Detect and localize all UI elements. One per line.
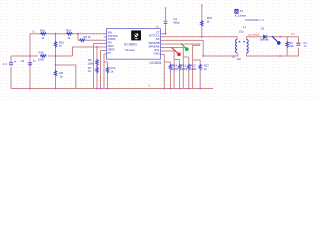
wire VREF vertical — [101, 51, 104, 89]
wire hook to R11 — [174, 60, 180, 89]
resistor R17 vertical — [199, 64, 201, 71]
svg-text:R18: R18 — [207, 16, 213, 20]
svg-text:Transient: Transient — [125, 49, 136, 52]
svg-text:NC: NC — [156, 37, 160, 41]
svg-text:22k: 22k — [289, 44, 294, 48]
svg-text:R16: R16 — [39, 50, 45, 54]
svg-text:R7: R7 — [88, 66, 92, 70]
svg-text:V2: V2 — [21, 59, 25, 63]
svg-text:10u: 10u — [236, 57, 241, 61]
resistor R6 vertical — [54, 70, 56, 77]
svg-text:R14: R14 — [66, 29, 72, 33]
open wire end markers — [165, 4, 203, 9]
wire GND vertical — [162, 55, 165, 89]
svg-text:RT: RT — [108, 51, 112, 55]
svg-text:out_freq1: out_freq1 — [248, 32, 260, 36]
capacitor C5 plus mark — [14, 61, 16, 63]
svg-text:L1: L1 — [243, 25, 247, 29]
wire hook to R17 — [193, 60, 201, 89]
symbol K1 icon — [234, 9, 238, 14]
wire NC1 vertical — [163, 51, 174, 89]
resistor R3 vertical — [286, 41, 288, 48]
svg-text:R13: R13 — [190, 64, 196, 68]
resistor R19 vertical — [169, 64, 171, 71]
svg-text:VT: VT — [156, 26, 160, 29]
wire NINV long — [73, 47, 104, 56]
svg-text:UC4801: UC4801 — [124, 42, 137, 46]
svg-text:R12: R12 — [111, 66, 117, 70]
svg-text:COUPLING = 1: COUPLING = 1 — [245, 18, 264, 22]
wire R15 column — [55, 34, 57, 89]
wire corner down from left node — [29, 34, 31, 89]
resistor R13 vertical — [188, 64, 190, 71]
resistor R12 vertical — [106, 67, 108, 74]
wire secondary top — [247, 37, 299, 39]
pin stubs left — [104, 34, 107, 54]
wire hook to R19 — [164, 62, 170, 89]
probe marker green — [181, 44, 189, 51]
resistor R18 vertical — [201, 20, 203, 27]
wire ground rail — [11, 88, 213, 90]
labels left section — [3, 29, 116, 79]
svg-text:C3: C3 — [173, 17, 177, 21]
svg-text:CT: CT — [156, 31, 160, 35]
wire INV vertical — [94, 44, 104, 89]
resistor R11 vertical — [178, 64, 180, 71]
svg-text:100k: 100k — [38, 58, 45, 62]
wire hook to R13 — [183, 57, 188, 89]
IC logo black square — [131, 30, 141, 40]
IC U1 UC4801 box — [107, 29, 161, 60]
resistor R14 — [66, 33, 73, 35]
wire EXTCLK long to transformer — [163, 36, 237, 38]
wire R16 node to ground drop — [56, 65, 76, 89]
junction dots — [29, 33, 281, 90]
svg-text:R17: R17 — [204, 64, 210, 68]
svg-text:K1: K1 — [240, 9, 244, 13]
svg-text:UC4801: UC4801 — [149, 61, 161, 65]
svg-text:R3: R3 — [289, 41, 293, 45]
svg-text:R8: R8 — [88, 58, 92, 62]
svg-text:982p: 982p — [173, 21, 180, 25]
wire net1 top-left horizontal — [30, 33, 104, 35]
wire DRVENB cascade — [163, 44, 199, 89]
svg-text:Dbreak: Dbreak — [260, 38, 269, 42]
resistor R9 — [79, 39, 86, 41]
svg-text:R10: R10 — [40, 29, 46, 33]
capacitor C1 — [296, 43, 300, 45]
labels middle/right section — [172, 9, 307, 71]
svg-text:R11: R11 — [181, 64, 186, 68]
svg-text:100k: 100k — [190, 67, 197, 71]
wire mid-left horizontal y56 — [11, 55, 73, 57]
IC pin labels left — [108, 31, 118, 55]
resistor R8 vertical — [96, 59, 98, 66]
svg-text:COMP: COMP — [108, 37, 116, 41]
polarity dot secondary — [243, 41, 245, 43]
wire cap1 leads — [10, 56, 12, 89]
wire NC to coil bottom — [163, 40, 238, 56]
resistor R7 vertical — [96, 67, 98, 74]
svg-text:NC1: NC1 — [154, 48, 160, 52]
svg-text:EXTCLK: EXTCLK — [149, 34, 159, 38]
svg-text:R9 1k: R9 1k — [84, 35, 92, 39]
wire NINV vertical — [96, 47, 98, 89]
svg-text:DRVENA: DRVENA — [149, 44, 160, 48]
svg-text:10u: 10u — [239, 30, 244, 34]
svg-text:out: out — [291, 32, 295, 36]
polarity dot primary — [239, 41, 241, 43]
wire secondary bottom — [247, 37, 299, 56]
svg-text:D1: D1 — [261, 26, 265, 30]
svg-text:DRVENB: DRVENB — [149, 41, 160, 45]
svg-text:K_Linear: K_Linear — [235, 14, 246, 18]
capacitor C5 4.4 — [9, 63, 13, 65]
capacitor C3 — [164, 21, 168, 23]
pin stubs right — [161, 34, 164, 55]
svg-text:100k: 100k — [172, 67, 179, 71]
wire CT to C3 — [163, 8, 165, 34]
wire R12 hook — [104, 62, 108, 89]
wire drop at x=78 to R9 — [78, 34, 104, 41]
red net labels — [32, 26, 295, 87]
IC pin labels right — [149, 31, 160, 56]
svg-text:R19: R19 — [172, 64, 178, 68]
probe marker blue — [272, 36, 281, 45]
probe marker red — [172, 48, 181, 57]
svg-text:100k: 100k — [181, 67, 188, 71]
svg-text:STATUS: STATUS — [108, 34, 118, 38]
wire DRVENA vertical — [163, 48, 183, 89]
resistor R16 — [40, 55, 47, 57]
svg-text:GND: GND — [154, 51, 160, 55]
background sheet — [0, 0, 320, 101]
wire transformer primary top lead — [236, 37, 238, 39]
svg-text:1n: 1n — [303, 44, 307, 48]
resistor R15 vertical — [54, 41, 56, 48]
svg-text:R6: R6 — [60, 71, 64, 75]
svg-text:R15: R15 — [59, 40, 65, 44]
svg-text:100k: 100k — [88, 61, 95, 65]
diode D1 — [263, 35, 267, 39]
inductor L1 secondary coil — [247, 39, 249, 53]
inductor L2 primary coil — [236, 39, 238, 53]
svg-text:NINV: NINV — [108, 44, 115, 48]
resistor R10 — [40, 33, 47, 35]
wire RT vertical — [103, 54, 105, 89]
svg-text:C1: C1 — [303, 41, 307, 45]
svg-text:VREF: VREF — [108, 47, 115, 51]
wire R3 column — [286, 37, 288, 56]
svg-text:K: K — [235, 9, 238, 14]
svg-text:4.4: 4.4 — [3, 62, 7, 66]
svg-text:VIN: VIN — [108, 31, 112, 35]
svg-text:1u: 1u — [33, 58, 37, 62]
svg-text:INV: INV — [108, 40, 113, 44]
svg-text:L2: L2 — [232, 54, 236, 58]
wire R18 column — [201, 5, 203, 37]
capacitor C2 1u — [28, 63, 32, 65]
